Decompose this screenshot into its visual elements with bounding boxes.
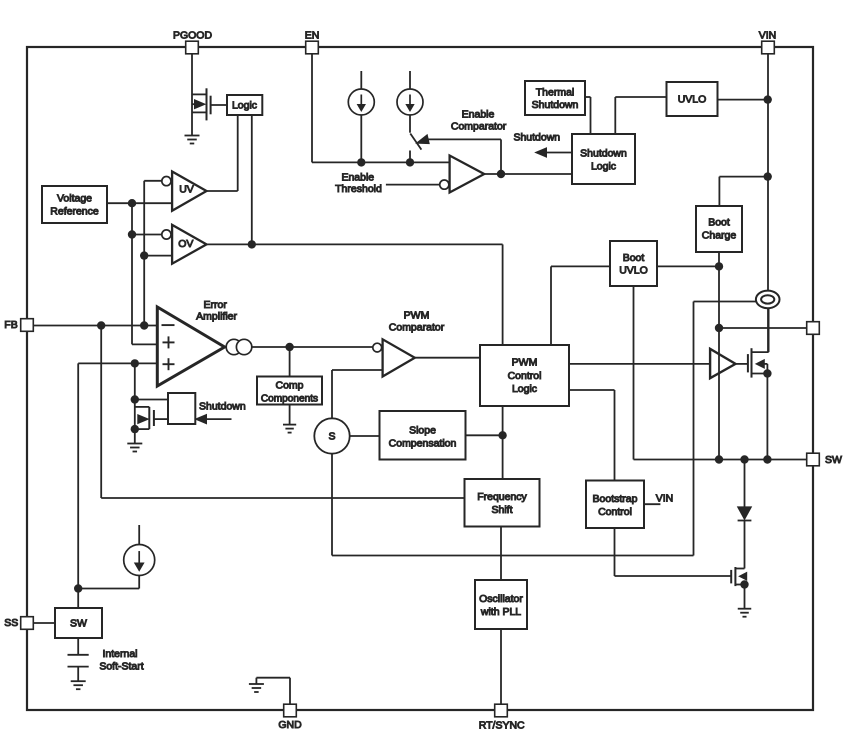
svg-text:Charge: Charge (702, 229, 737, 241)
svg-text:UVLO: UVLO (678, 94, 707, 106)
svg-text:UVLO: UVLO (619, 265, 648, 277)
svg-text:Oscillator: Oscillator (479, 593, 523, 605)
svg-text:Shutdown: Shutdown (532, 99, 579, 111)
svg-text:PWM: PWM (404, 310, 430, 322)
svg-text:Voltage: Voltage (57, 193, 92, 205)
svg-text:Bootstrap: Bootstrap (593, 493, 638, 505)
svg-text:Shutdown: Shutdown (513, 132, 560, 144)
svg-text:RT/SYNC: RT/SYNC (479, 720, 525, 732)
svg-text:Boot: Boot (708, 217, 730, 229)
svg-text:Thermal: Thermal (536, 87, 575, 99)
svg-text:Logic: Logic (591, 160, 616, 172)
svg-text:Components: Components (261, 393, 318, 404)
svg-text:PWM: PWM (512, 357, 538, 369)
svg-text:VIN: VIN (759, 30, 777, 42)
svg-text:SS: SS (4, 617, 18, 629)
svg-text:Logic: Logic (232, 100, 257, 112)
svg-text:SW: SW (70, 618, 87, 630)
svg-text:Compensation: Compensation (389, 438, 457, 450)
svg-text:VIN: VIN (656, 492, 674, 504)
svg-text:Amplifier: Amplifier (196, 311, 237, 323)
svg-text:SW: SW (825, 454, 842, 466)
svg-text:Control: Control (508, 370, 542, 382)
svg-text:Shutdown: Shutdown (580, 148, 627, 160)
svg-text:PGOOD: PGOOD (173, 30, 213, 42)
svg-text:Boot: Boot (623, 252, 645, 264)
svg-text:Control: Control (598, 506, 632, 518)
svg-text:Internal: Internal (102, 648, 137, 660)
svg-text:Enable: Enable (341, 172, 374, 184)
svg-text:EN: EN (305, 30, 320, 42)
svg-text:Comparator: Comparator (389, 322, 445, 334)
svg-text:Shift: Shift (491, 504, 512, 516)
svg-text:Comparator: Comparator (451, 120, 507, 132)
svg-text:FB: FB (4, 319, 17, 331)
svg-text:GND: GND (278, 719, 302, 731)
svg-text:with PLL: with PLL (480, 606, 521, 618)
svg-text:Reference: Reference (50, 206, 99, 218)
svg-text:Shutdown: Shutdown (199, 401, 246, 413)
svg-text:Enable: Enable (462, 109, 495, 121)
svg-text:Comp: Comp (275, 380, 303, 392)
svg-text:Slope: Slope (409, 425, 436, 437)
svg-text:UV: UV (179, 183, 194, 195)
svg-text:Logic: Logic (512, 383, 537, 395)
svg-text:OV: OV (178, 238, 193, 250)
svg-text:Frequency: Frequency (477, 491, 527, 503)
svg-text:S: S (328, 431, 335, 443)
svg-text:Error: Error (204, 299, 228, 311)
svg-text:Threshold: Threshold (335, 183, 382, 195)
svg-text:Soft-Start: Soft-Start (99, 661, 143, 673)
